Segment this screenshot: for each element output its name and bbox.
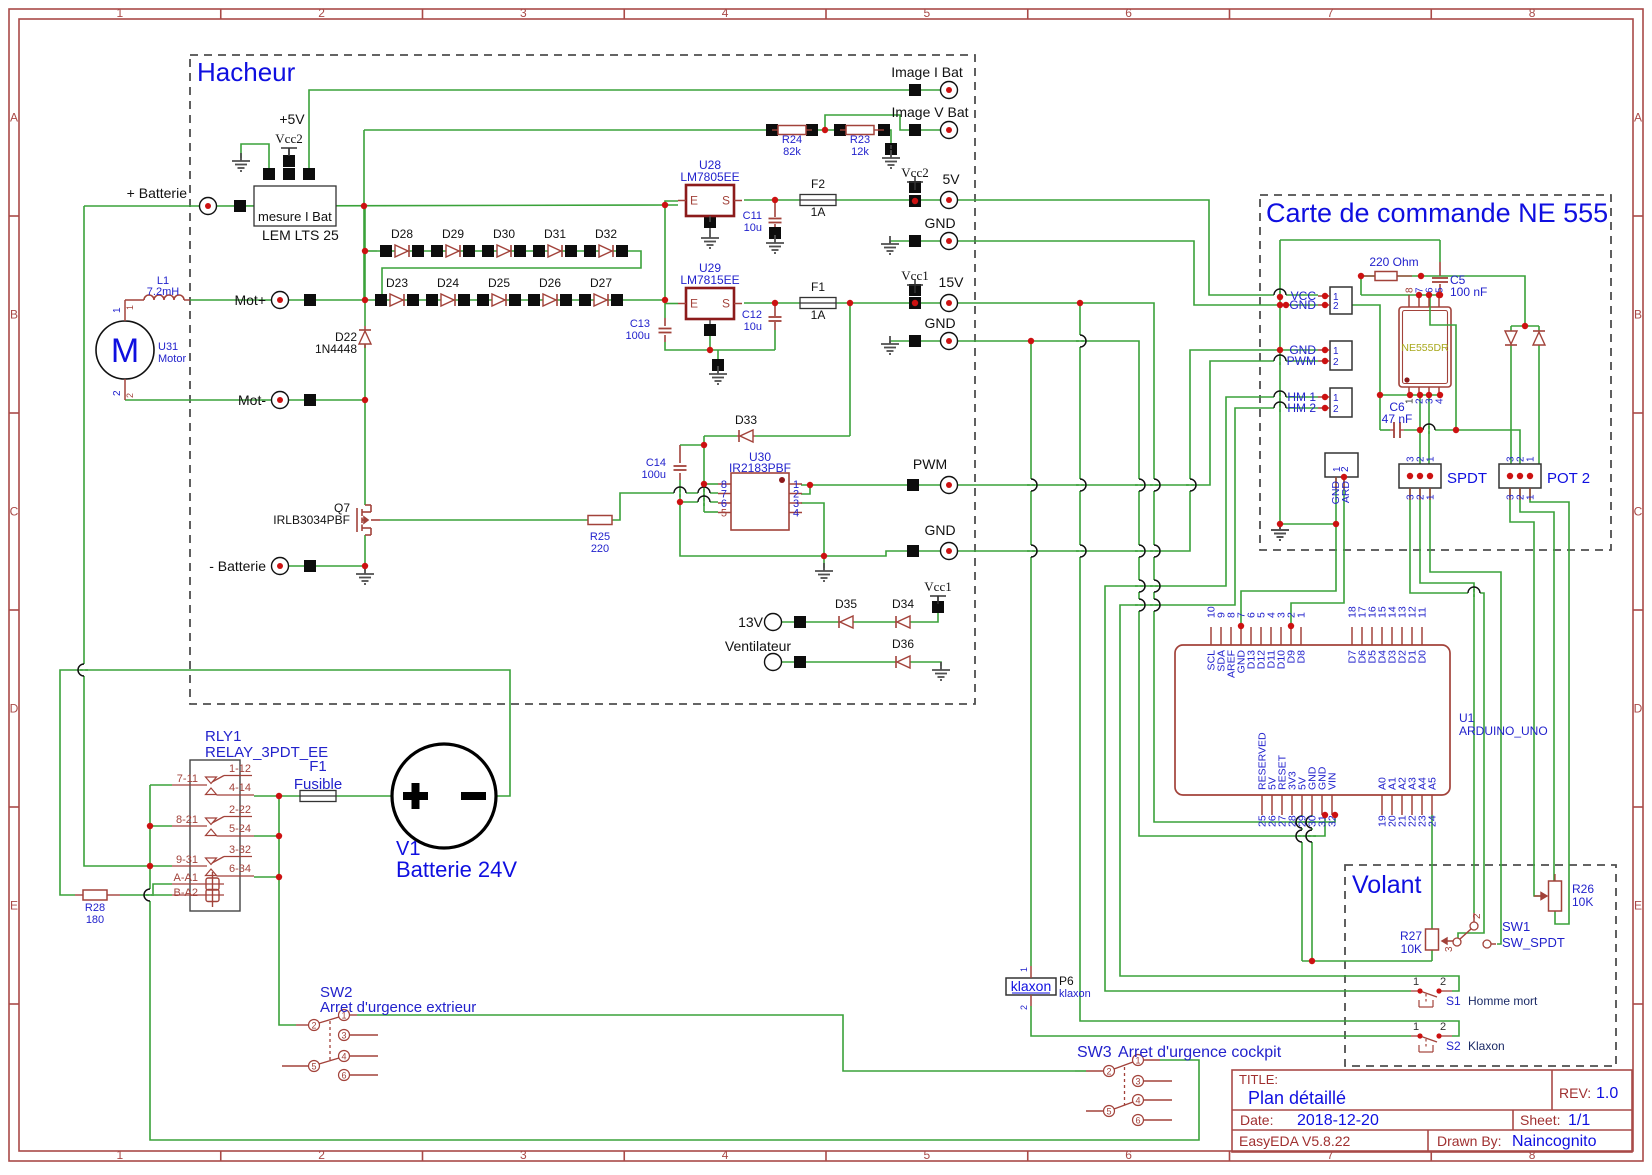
svg-text:D25: D25 (488, 276, 510, 290)
svg-text:R26: R26 (1572, 882, 1594, 896)
svg-text:100u: 100u (626, 330, 650, 342)
svg-text:10u: 10u (744, 222, 762, 234)
svg-text:Image I Bat: Image I Bat (891, 64, 963, 80)
svg-text:5V: 5V (942, 171, 960, 187)
svg-text:D8: D8 (1296, 650, 1308, 664)
svg-text:1A: 1A (811, 205, 826, 219)
svg-text:2018-12-20: 2018-12-20 (1297, 1112, 1379, 1129)
svg-text:D29: D29 (442, 227, 464, 241)
svg-text:10u: 10u (744, 321, 762, 333)
svg-text:C: C (1634, 505, 1643, 519)
svg-text:REV:: REV: (1559, 1085, 1591, 1101)
svg-text:5: 5 (924, 1148, 931, 1162)
svg-text:Mot-: Mot- (238, 392, 266, 408)
svg-text:D0: D0 (1417, 650, 1429, 664)
svg-text:+ Batterie: + Batterie (127, 185, 188, 201)
svg-text:POT 2: POT 2 (1547, 470, 1590, 487)
svg-text:Vcc2: Vcc2 (275, 131, 302, 146)
svg-text:2: 2 (112, 390, 123, 396)
svg-text:6-34: 6-34 (229, 863, 251, 875)
svg-text:1: 1 (1413, 1021, 1419, 1033)
svg-text:1: 1 (125, 305, 135, 310)
svg-text:6: 6 (1125, 6, 1132, 20)
svg-text:F1: F1 (309, 758, 327, 775)
svg-text:GND: GND (1289, 298, 1316, 312)
svg-text:S: S (722, 297, 730, 311)
svg-text:IRLB3034PBF: IRLB3034PBF (273, 513, 350, 527)
svg-text:2: 2 (1340, 466, 1351, 472)
svg-text:Fusible: Fusible (294, 776, 342, 793)
svg-text:1-12: 1-12 (229, 763, 251, 775)
svg-text:13V: 13V (738, 614, 764, 630)
svg-text:8: 8 (1529, 1148, 1536, 1162)
svg-text:Vcc1: Vcc1 (924, 579, 951, 594)
svg-text:Ventilateur: Ventilateur (725, 638, 791, 654)
svg-text:Carte de commande NE 555: Carte de commande NE 555 (1266, 198, 1608, 228)
svg-text:2: 2 (318, 6, 325, 20)
svg-text:82k: 82k (783, 146, 801, 158)
svg-text:D34: D34 (892, 597, 914, 611)
svg-text:8-21: 8-21 (176, 814, 198, 826)
svg-text:7: 7 (1327, 6, 1334, 20)
svg-text:C13: C13 (630, 318, 650, 330)
svg-text:10K: 10K (1401, 942, 1422, 956)
svg-text:6: 6 (1135, 1116, 1140, 1126)
svg-text:1A: 1A (811, 308, 826, 322)
svg-text:5: 5 (924, 6, 931, 20)
svg-text:Klaxon: Klaxon (1468, 1039, 1505, 1053)
svg-text:1/1: 1/1 (1568, 1112, 1590, 1129)
svg-text:C14: C14 (646, 457, 666, 469)
svg-text:A: A (1634, 111, 1642, 125)
svg-text:D26: D26 (539, 276, 561, 290)
svg-text:C11: C11 (743, 210, 762, 222)
svg-text:GND: GND (924, 315, 955, 331)
svg-text:3: 3 (520, 1148, 527, 1162)
svg-text:HM 2: HM 2 (1287, 401, 1316, 415)
svg-text:D27: D27 (590, 276, 612, 290)
svg-text:S2: S2 (1446, 1039, 1461, 1053)
svg-text:E: E (10, 899, 18, 913)
svg-text:1: 1 (1019, 967, 1029, 972)
svg-text:M: M (111, 332, 139, 370)
svg-text:GND: GND (924, 215, 955, 231)
svg-text:2: 2 (1333, 301, 1339, 312)
svg-text:R25: R25 (590, 531, 610, 543)
svg-text:3-32: 3-32 (229, 844, 251, 856)
svg-text:3: 3 (341, 1031, 346, 1041)
svg-text:E: E (690, 194, 698, 208)
svg-text:2: 2 (1472, 913, 1483, 919)
svg-text:D32: D32 (595, 227, 617, 241)
svg-text:ARDUINO_UNO: ARDUINO_UNO (1459, 724, 1548, 738)
svg-text:Drawn By:: Drawn By: (1437, 1133, 1502, 1149)
svg-text:1: 1 (117, 6, 124, 20)
svg-text:4: 4 (793, 508, 799, 520)
svg-text:1: 1 (1296, 612, 1308, 618)
svg-text:3: 3 (1444, 946, 1455, 952)
svg-text:1: 1 (1526, 456, 1537, 462)
svg-text:B-A2: B-A2 (174, 887, 198, 899)
svg-text:D35: D35 (835, 597, 857, 611)
svg-text:12k: 12k (851, 146, 869, 158)
svg-text:1: 1 (1413, 976, 1419, 988)
svg-text:2: 2 (1019, 1005, 1029, 1010)
svg-text:1: 1 (112, 307, 123, 313)
svg-text:2-22: 2-22 (229, 804, 251, 816)
svg-text:- Batterie: - Batterie (209, 558, 266, 574)
svg-text:4: 4 (722, 1148, 729, 1162)
svg-text:100u: 100u (642, 469, 666, 481)
svg-text:1: 1 (117, 1148, 124, 1162)
svg-text:Homme mort: Homme mort (1468, 994, 1538, 1008)
svg-text:1: 1 (1333, 346, 1339, 357)
svg-text:Image V Bat: Image V Bat (891, 104, 968, 120)
svg-text:2: 2 (318, 1148, 325, 1162)
svg-text:TITLE:: TITLE: (1239, 1072, 1278, 1087)
svg-text:2: 2 (1333, 357, 1339, 368)
svg-text:Arret d'urgence cockpit: Arret d'urgence cockpit (1118, 1044, 1282, 1061)
svg-text:F1: F1 (811, 280, 825, 294)
svg-text:47 nF: 47 nF (1382, 412, 1413, 426)
svg-text:PWM: PWM (1287, 354, 1316, 368)
svg-text:7: 7 (1327, 1148, 1334, 1162)
svg-text:Batterie 24V: Batterie 24V (396, 857, 517, 882)
svg-text:3: 3 (1135, 1077, 1140, 1087)
svg-text:2: 2 (311, 1021, 316, 1031)
svg-text:Hacheur: Hacheur (197, 57, 296, 87)
svg-text:NE555DR: NE555DR (1401, 342, 1449, 354)
svg-text:R23: R23 (850, 134, 870, 146)
svg-text:Date:: Date: (1240, 1112, 1273, 1128)
svg-text:B: B (10, 308, 18, 322)
svg-text:1: 1 (1426, 494, 1437, 500)
svg-text:Motor: Motor (158, 353, 186, 365)
svg-text:F2: F2 (811, 177, 825, 191)
svg-text:P6: P6 (1059, 974, 1074, 988)
svg-text:4: 4 (341, 1052, 346, 1062)
svg-text:4: 4 (1135, 1096, 1140, 1106)
svg-text:1: 1 (1526, 494, 1537, 500)
svg-text:4-14: 4-14 (229, 782, 251, 794)
svg-text:2: 2 (1440, 976, 1446, 988)
svg-text:4: 4 (722, 6, 729, 20)
svg-text:2: 2 (1333, 404, 1339, 415)
svg-text:D36: D36 (892, 637, 914, 651)
svg-text:U1: U1 (1459, 711, 1475, 725)
svg-text:Volant: Volant (1352, 871, 1422, 899)
svg-text:B: B (1634, 308, 1642, 322)
svg-text:LM7805EE: LM7805EE (680, 170, 739, 184)
svg-text:8: 8 (1529, 6, 1536, 20)
svg-text:C: C (10, 505, 19, 519)
svg-text:7-11: 7-11 (177, 773, 198, 785)
svg-text:Mot+: Mot+ (234, 292, 266, 308)
svg-text:4: 4 (1435, 398, 1446, 404)
svg-text:SW_SPDT: SW_SPDT (1502, 935, 1565, 950)
svg-text:VIN: VIN (1327, 772, 1339, 790)
svg-text:PWM: PWM (913, 456, 947, 472)
svg-text:R28: R28 (85, 902, 105, 914)
svg-text:Sheet:: Sheet: (1520, 1112, 1560, 1128)
svg-text:D28: D28 (391, 227, 413, 241)
svg-text:5: 5 (1106, 1107, 1111, 1117)
svg-text:SPDT: SPDT (1447, 470, 1487, 487)
svg-text:10K: 10K (1572, 895, 1593, 909)
svg-text:klaxon: klaxon (1059, 988, 1091, 1000)
svg-text:1: 1 (1426, 456, 1437, 462)
svg-text:2: 2 (125, 393, 135, 398)
svg-text:Naincognito: Naincognito (1512, 1133, 1597, 1150)
svg-text:S: S (722, 194, 730, 208)
svg-text:220 Ohm: 220 Ohm (1369, 255, 1418, 269)
svg-text:RLY1: RLY1 (205, 728, 241, 745)
svg-text:2: 2 (1106, 1067, 1111, 1077)
svg-text:5: 5 (311, 1062, 316, 1072)
svg-text:220: 220 (591, 543, 609, 555)
svg-text:+5V: +5V (279, 111, 305, 127)
svg-text:D: D (1634, 702, 1643, 716)
svg-text:15V: 15V (939, 274, 965, 290)
svg-text:100 nF: 100 nF (1450, 285, 1487, 299)
svg-text:EasyEDA V5.8.22: EasyEDA V5.8.22 (1239, 1133, 1351, 1149)
svg-text:11: 11 (1417, 607, 1429, 618)
svg-text:IR2183PBF: IR2183PBF (729, 461, 791, 475)
svg-text:C12: C12 (742, 309, 762, 321)
svg-text:24: 24 (1427, 815, 1439, 827)
svg-text:SW1: SW1 (1502, 919, 1530, 934)
svg-text:D24: D24 (437, 276, 459, 290)
svg-text:9-31: 9-31 (176, 854, 198, 866)
svg-text:6: 6 (341, 1071, 346, 1081)
svg-text:5-24: 5-24 (229, 823, 251, 835)
svg-text:D31: D31 (544, 227, 566, 241)
svg-text:D33: D33 (735, 413, 757, 427)
svg-text:D23: D23 (386, 276, 408, 290)
svg-text:LM7815EE: LM7815EE (680, 273, 739, 287)
svg-text:7.2mH: 7.2mH (147, 286, 179, 298)
svg-text:3: 3 (520, 6, 527, 20)
svg-text:180: 180 (86, 914, 104, 926)
svg-text:E: E (690, 297, 698, 311)
svg-text:LEM LTS 25: LEM LTS 25 (262, 227, 339, 243)
svg-text:E: E (1634, 899, 1642, 913)
svg-text:Arret d'urgence extrieur: Arret d'urgence extrieur (320, 999, 476, 1016)
svg-text:S1: S1 (1446, 994, 1461, 1008)
svg-text:2: 2 (1440, 1021, 1446, 1033)
svg-text:D30: D30 (493, 227, 515, 241)
svg-text:U31: U31 (158, 341, 178, 353)
svg-text:klaxon: klaxon (1011, 978, 1051, 994)
svg-text:5: 5 (721, 508, 727, 520)
svg-text:D: D (10, 702, 19, 716)
svg-text:mesure I Bat: mesure I Bat (258, 209, 332, 224)
svg-text:1.0: 1.0 (1596, 1085, 1618, 1102)
svg-text:A5: A5 (1427, 777, 1439, 790)
svg-text:A-A1: A-A1 (174, 872, 198, 884)
svg-text:1N4448: 1N4448 (315, 342, 357, 356)
svg-text:SW3: SW3 (1077, 1044, 1112, 1061)
svg-text:6: 6 (1125, 1148, 1132, 1162)
svg-text:ARD: ARD (1340, 481, 1352, 504)
svg-text:1: 1 (1333, 393, 1339, 404)
svg-text:R24: R24 (782, 134, 802, 146)
svg-text:A: A (10, 111, 18, 125)
svg-text:Plan détaillé: Plan détaillé (1248, 1088, 1346, 1108)
svg-text:R27: R27 (1400, 929, 1422, 943)
svg-text:GND: GND (924, 522, 955, 538)
